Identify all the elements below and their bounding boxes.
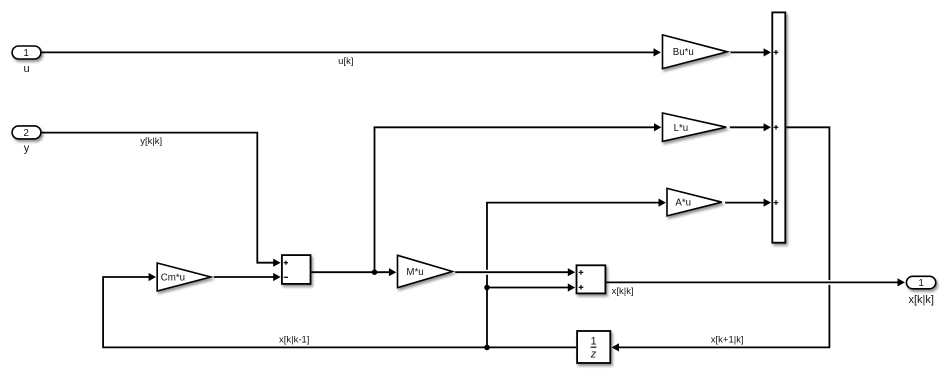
sum U1 minus sign (284, 276, 288, 278)
svg-text:1: 1 (918, 278, 924, 289)
signal label u[k] (338, 56, 353, 67)
arrowhead into Sum2 top input (568, 268, 575, 276)
svg-text:1: 1 (590, 335, 596, 347)
junction node C (484, 345, 490, 351)
arrowhead into M*u (389, 268, 396, 276)
gain Cm*u (157, 263, 211, 291)
svg-text:M*u: M*u (406, 267, 423, 278)
gain A*u (667, 188, 722, 216)
gain M*u value label (406, 267, 423, 278)
wire: Sum1 output to Gain M*u (311, 271, 389, 273)
svg-text:A*u: A*u (675, 197, 691, 208)
arrowhead into Sum3 input 2 (764, 123, 771, 131)
gain L*u value label (674, 123, 689, 134)
wire branch: node A up to Gain L*u (375, 127, 655, 272)
arrowhead into Unit Delay (pointing left) (612, 343, 619, 351)
arrowhead into Sum1 minus input (273, 273, 280, 281)
outport 1 number (918, 278, 924, 289)
svg-text:Cm*u: Cm*u (161, 272, 185, 283)
sum U3 (tall 3-input adder) (772, 12, 785, 242)
wire x[k+1|k]: Sum3 output right, down, left into Unit Delay (gap crossing output wire) (618, 127, 829, 347)
svg-text:Bu*u: Bu*u (673, 47, 694, 58)
wire: Gain L*u to Sum3 input 2 (730, 126, 764, 128)
svg-text:x[k+1|k]: x[k+1|k] (711, 334, 744, 345)
gain Bu*u (663, 35, 728, 69)
gain A*u value label (675, 197, 691, 208)
arrowhead into L*u (654, 123, 661, 131)
gain M*u (398, 255, 453, 287)
sum U2 (x[k|k]) (577, 265, 606, 293)
sum U3 plus sign 2 (774, 125, 779, 130)
svg-text:u[k]: u[k] (338, 56, 353, 67)
inport 2 number (23, 128, 29, 139)
sum U2 plus sign top (579, 270, 584, 275)
svg-text:y: y (24, 142, 30, 154)
arrowhead into Bu*u (654, 48, 661, 56)
svg-text:x[k|k]: x[k|k] (908, 294, 933, 306)
signal label x[k|k-1] (279, 334, 309, 345)
svg-text:x[k|k]: x[k|k] (612, 286, 634, 297)
junction node A (372, 269, 378, 275)
wire x[k|k-1] riser: node C up to Gain A*u (gap where it crosses M*u wire) (487, 203, 659, 348)
signal label y[k|k] (140, 136, 162, 147)
arrowhead into Outport1 (898, 278, 905, 286)
gain Cm*u value label (161, 272, 185, 283)
gain L*u (663, 113, 727, 141)
unit delay 1/z (577, 331, 610, 363)
unit delay fraction bar (591, 346, 597, 348)
wire: Gain Cm*u to Sum1 minus input (214, 276, 274, 278)
signal label x[k+1|k] (711, 334, 744, 345)
signal label x[k|k] (612, 286, 634, 297)
arrowhead into Sum2 bottom input (568, 283, 575, 291)
svg-text:z: z (590, 348, 597, 360)
wire y[k|k]: Inport2 to Sum1 plus input (42, 133, 274, 263)
gain Bu*u value label (673, 47, 694, 58)
wire: Gain A*u to Sum3 input 3 (725, 202, 764, 204)
svg-text:u: u (23, 63, 29, 75)
wire u[k]: Inport1 to Gain Bu*u (42, 51, 654, 53)
wire: Gain Bu*u to Sum3 input 1 (731, 51, 765, 53)
svg-text:y[k|k]: y[k|k] (140, 136, 162, 147)
junction node B (484, 285, 490, 291)
svg-text:1: 1 (23, 48, 29, 59)
sum U3 plus sign 1 (774, 50, 779, 55)
outport 1 (x[k|k]) (906, 276, 935, 289)
svg-text:L*u: L*u (674, 123, 689, 134)
wire x[k|k-1]: Unit Delay output left, up, into Gain Cm*u (103, 277, 576, 347)
wire: Gain M*u to Sum2 top plus input (455, 271, 568, 273)
inport 1 number (23, 48, 29, 59)
wire x[k|k]: Sum2 output to Outport1 (606, 281, 898, 283)
unit delay denominator z (590, 348, 597, 360)
sum U3 plus sign 3 (774, 200, 779, 205)
arrowhead into Sum3 input 1 (764, 48, 771, 56)
inport 1 (u) (12, 46, 41, 59)
inport 2 name label y (24, 142, 30, 154)
arrowhead into Sum3 input 3 (764, 199, 771, 207)
arrowhead into A*u (659, 199, 666, 207)
sum U1 (y - Cm*x) (282, 255, 311, 284)
inport 1 name label u (23, 63, 29, 75)
arrowhead into Cm*u (149, 273, 156, 281)
sum U1 plus sign (284, 261, 288, 265)
outport 1 name label x[k|k] (908, 294, 933, 306)
svg-text:x[k|k-1]: x[k|k-1] (279, 334, 309, 345)
svg-text:2: 2 (23, 128, 29, 139)
sum U2 plus sign bottom (579, 285, 584, 290)
unit delay numerator 1 (590, 335, 596, 347)
arrowhead into Sum1 plus input (273, 259, 280, 267)
wire: node B to Sum2 bottom plus input (487, 287, 568, 289)
inport 2 (y) (12, 126, 41, 139)
